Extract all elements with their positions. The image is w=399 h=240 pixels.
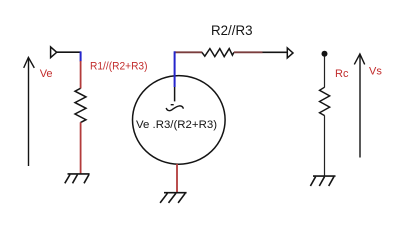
wire black to output terminal bbox=[263, 51, 288, 53]
resistor R2//R3 zigzag bbox=[202, 49, 234, 57]
node dot (collector node) bbox=[322, 51, 328, 57]
ground right bbox=[310, 176, 335, 186]
svg-text:Ve .R3/(R2+R3): Ve .R3/(R2+R3) bbox=[136, 119, 217, 131]
wire maroon left lead of R2//R3 bbox=[175, 51, 203, 53]
ground middle bbox=[160, 193, 187, 203]
arrow Vs (output voltage arrow) bbox=[354, 54, 364, 158]
wire blue segment into source bbox=[174, 51, 176, 87]
source symbol dash bbox=[171, 104, 174, 106]
source symbol tilde bbox=[166, 106, 183, 111]
input terminal triangle bbox=[51, 47, 57, 58]
wire node to Rc bbox=[324, 57, 326, 88]
wire red below source bbox=[176, 164, 178, 193]
source U1 circle (controlled source) bbox=[133, 76, 226, 165]
svg-text:Vs: Vs bbox=[369, 66, 382, 78]
svg-text:Rc: Rc bbox=[335, 68, 349, 80]
resistor R1//(R2+R3) zigzag bbox=[75, 88, 86, 122]
svg-text:Ve: Ve bbox=[40, 68, 53, 80]
output terminal triangle bbox=[287, 48, 293, 58]
svg-text:R2//R3: R2//R3 bbox=[211, 22, 253, 38]
arrow Ve (input voltage arrow) bbox=[24, 57, 35, 166]
resistor Rc zigzag bbox=[320, 87, 330, 115]
ground left bbox=[65, 174, 90, 183]
wire Rc to ground bbox=[324, 116, 326, 176]
wire red upper lead of R1//(R2+R3) bbox=[80, 61, 82, 89]
svg-text:R1//(R2+R3): R1//(R2+R3) bbox=[90, 60, 148, 72]
wire black inside source bbox=[174, 87, 176, 101]
wire maroon right lead of R2//R3 bbox=[234, 51, 263, 53]
wire red lower lead of R1//(R2+R3) bbox=[80, 122, 82, 174]
wire input terminal to node (black) bbox=[57, 51, 81, 53]
wire blue segment top of R1 branch bbox=[80, 51, 82, 61]
